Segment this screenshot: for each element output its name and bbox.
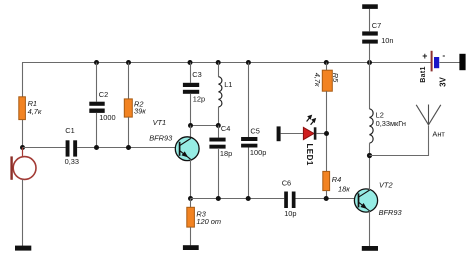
svg-text:C3: C3 xyxy=(192,70,201,79)
wire C3 top xyxy=(190,63,192,83)
node L2/antenna/VT2 collector xyxy=(367,153,372,158)
capacitor C1 xyxy=(66,140,78,156)
node collector right xyxy=(216,123,221,128)
wire C7 bottom lead xyxy=(369,44,371,63)
wire VT2 collector xyxy=(369,156,371,191)
node C7/L2 on rail xyxy=(367,60,372,65)
node R5 top on rail xyxy=(324,60,329,65)
wire VT1 emitter xyxy=(190,160,192,199)
ground (VT2) xyxy=(362,246,378,251)
svg-text:0,33: 0,33 xyxy=(65,157,79,166)
wire C4 bottom xyxy=(218,149,220,198)
label VT1 xyxy=(149,118,173,143)
wire VT1 collector xyxy=(190,126,192,139)
label battery plus xyxy=(422,51,427,61)
wire mic bottom to ground xyxy=(22,180,24,247)
svg-text:10p: 10p xyxy=(284,209,296,218)
wire C2 bottom xyxy=(96,113,98,148)
resistor R3 xyxy=(187,207,195,227)
svg-text:39к: 39к xyxy=(134,107,146,116)
label R5 (rotated) xyxy=(331,73,340,83)
inductor L2 xyxy=(370,109,374,143)
wire LED cathode xyxy=(316,133,326,135)
wire top supply rail xyxy=(22,62,431,64)
svg-text:Ант: Ант xyxy=(432,130,445,139)
wire C3 bottom to collector node xyxy=(190,94,192,126)
label VT2 xyxy=(379,180,403,217)
wire antenna feed xyxy=(370,125,429,155)
svg-text:LED1: LED1 xyxy=(305,143,314,165)
svg-text:R4: R4 xyxy=(332,175,341,184)
label battery minus xyxy=(442,50,445,60)
label 3V (rotated) xyxy=(438,76,447,86)
wire R3 bottom xyxy=(190,227,192,245)
LED LED1 xyxy=(303,115,316,140)
wire L1 bottom to collector node xyxy=(218,107,220,126)
battery Bat1 negative plate xyxy=(434,57,439,68)
capacitor C2 xyxy=(89,102,104,113)
svg-text:12p: 12p xyxy=(193,94,205,103)
node R4 bottom / VT2 base xyxy=(324,196,329,201)
svg-text:-: - xyxy=(442,50,445,60)
terminal bar (battery right) xyxy=(459,54,465,70)
wire R4 bottom xyxy=(326,191,328,199)
transistor VT1 xyxy=(175,137,199,161)
wire C5 bottom xyxy=(248,148,250,199)
svg-text:18p: 18p xyxy=(220,149,232,158)
capacitor C4 xyxy=(209,138,225,149)
node C2 bottom on base wire xyxy=(94,145,99,150)
label LED1 (rotated) xyxy=(305,143,314,165)
svg-text:18к: 18к xyxy=(338,185,350,194)
wire R2 top xyxy=(128,63,130,99)
antenna xyxy=(416,105,441,125)
wire C5 top xyxy=(248,63,250,138)
label C7 value xyxy=(372,21,394,45)
label C3 value xyxy=(192,70,205,103)
svg-text:10n: 10n xyxy=(381,36,393,45)
svg-text:VT1: VT1 xyxy=(153,118,167,127)
svg-text:1000: 1000 xyxy=(99,113,115,122)
label R5 value (rotated) xyxy=(313,73,322,87)
label C4 value xyxy=(220,124,232,158)
wire C7 top lead xyxy=(369,9,371,32)
label R1 value xyxy=(28,99,42,116)
wire C2 top xyxy=(96,63,98,102)
inductor L1 xyxy=(219,77,222,107)
svg-text:L1: L1 xyxy=(224,80,232,89)
node collector left xyxy=(188,123,193,128)
label C2 value xyxy=(99,90,116,122)
node R2 top on rail xyxy=(126,60,131,65)
terminal stub bar (LED anode) xyxy=(277,126,281,141)
resistor R1 xyxy=(19,97,26,120)
ground (microphone) xyxy=(15,246,31,251)
svg-text:C4: C4 xyxy=(221,124,230,133)
label R3 value xyxy=(196,209,221,225)
svg-text:3V: 3V xyxy=(438,76,447,86)
capacitor C7 xyxy=(362,31,378,43)
node LED cathode junction xyxy=(324,131,329,136)
wire VT2 emitter xyxy=(369,211,371,246)
label C1 value xyxy=(65,126,79,166)
wire R5 bottom to R4 top xyxy=(326,91,328,171)
wire mic node to C1 xyxy=(23,147,66,149)
svg-text:C2: C2 xyxy=(99,90,108,99)
svg-text:C1: C1 xyxy=(65,126,74,135)
svg-text:C5: C5 xyxy=(250,127,259,136)
svg-text:C6: C6 xyxy=(282,179,291,188)
wire collector link xyxy=(191,125,219,127)
ground (R3) xyxy=(183,245,199,250)
resistor R2 xyxy=(124,99,132,117)
wire C6 to VT2 base xyxy=(296,198,359,200)
svg-text:100p: 100p xyxy=(250,148,266,157)
capacitor C3 xyxy=(183,83,199,94)
svg-text:120 om: 120 om xyxy=(196,217,221,226)
svg-text:4,7к: 4,7к xyxy=(28,107,42,116)
svg-text:Bat1: Bat1 xyxy=(420,66,427,82)
microphone BM xyxy=(10,148,36,180)
node C5 bottom xyxy=(246,196,251,201)
battery Bat1 positive plate xyxy=(431,51,433,72)
label C5 value xyxy=(250,127,266,158)
wire R5 top xyxy=(326,63,328,71)
node C2 top on rail xyxy=(94,60,99,65)
svg-text:R5: R5 xyxy=(331,73,340,83)
label R2 value xyxy=(134,100,146,116)
node C4 bottom xyxy=(216,196,221,201)
svg-text:4,7к: 4,7к xyxy=(313,73,322,87)
resistor R5 xyxy=(322,70,332,91)
svg-text:BFR93: BFR93 xyxy=(149,133,173,142)
node mic/C1 junction xyxy=(20,145,25,150)
label antenna xyxy=(432,130,445,139)
wire R3 top xyxy=(190,199,192,208)
capacitor C5 xyxy=(241,137,257,148)
wire L2 top xyxy=(369,63,371,109)
node emitter/R3 xyxy=(188,196,193,201)
capacitor C6 xyxy=(284,192,295,209)
wire R2 bottom xyxy=(128,117,130,147)
label R4 value xyxy=(332,175,350,194)
transistor VT2 xyxy=(354,189,377,212)
node L1 top on rail xyxy=(216,60,221,65)
wire L1 top xyxy=(218,63,220,77)
wire C4 top xyxy=(218,126,220,138)
resistor R4 xyxy=(323,171,330,190)
terminal bar (C7 top) xyxy=(362,4,378,9)
label L1 xyxy=(224,80,232,89)
svg-text:C7: C7 xyxy=(372,21,381,30)
svg-text:BFR93: BFR93 xyxy=(379,208,403,217)
wire LED anode xyxy=(281,133,304,135)
svg-text:+: + xyxy=(422,51,427,61)
wire left drop from rail to mic node xyxy=(22,63,24,148)
label L2 value xyxy=(376,111,406,128)
node C3 top on rail xyxy=(188,60,193,65)
wire emitter line to C6 xyxy=(191,198,285,200)
node R2 bottom on base wire xyxy=(126,145,131,150)
wire battery to terminal bar xyxy=(440,62,460,64)
node C5 top on rail xyxy=(246,60,251,65)
wire L2 bottom to node xyxy=(369,143,371,155)
wire C1 to VT1 base xyxy=(77,147,179,149)
label C6 value xyxy=(282,179,297,219)
svg-text:VT2: VT2 xyxy=(379,180,393,189)
label Bat1 (rotated) xyxy=(420,66,427,82)
svg-text:0,33мкГн: 0,33мкГн xyxy=(376,119,406,128)
